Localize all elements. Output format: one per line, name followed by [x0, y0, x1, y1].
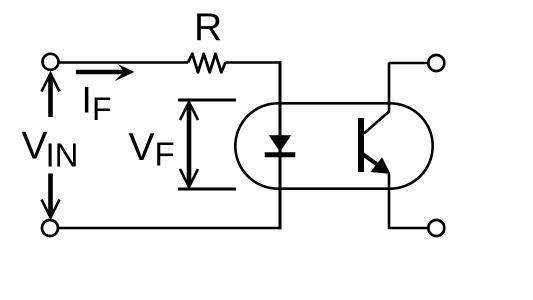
LED D1 cathode bar — [265, 152, 296, 157]
svg-text:F: F — [92, 91, 112, 127]
VF top measurement bar — [178, 99, 236, 102]
VF bottom measurement bar — [178, 188, 236, 191]
resistor R — [188, 54, 226, 73]
phototransistor Q1 base bar — [358, 118, 364, 172]
svg-text:F: F — [155, 136, 175, 173]
arrow VIN down (to bottom-left terminal) — [42, 174, 60, 218]
wire: emitter to bottom-right terminal — [389, 174, 429, 228]
arrow IF (current direction) — [76, 64, 135, 81]
svg-text:IN: IN — [46, 137, 79, 174]
wire: resistor to node (LED anode column) — [226, 61, 282, 64]
LED anode/cathode wire — [279, 61, 282, 229]
terminal top-right — [428, 55, 444, 71]
phototransistor Q1 collector — [364, 63, 389, 134]
svg-text:V: V — [22, 125, 48, 168]
VF double-headed arrow — [180, 102, 198, 187]
phototransistor Q1 emitter with arrow — [363, 154, 391, 174]
LED D1 triangle — [269, 135, 291, 152]
wire: top-left terminal to resistor — [59, 61, 189, 64]
arrow VIN up (at top-left terminal) — [42, 74, 60, 118]
terminal top-left — [43, 54, 59, 70]
svg-text:R: R — [194, 6, 222, 49]
terminal bottom-left — [42, 220, 58, 236]
optocoupler package U1 (stadium outline) — [235, 103, 432, 188]
svg-text:V: V — [129, 126, 155, 169]
terminal bottom-right — [428, 220, 444, 236]
wire: collector to top-right terminal — [389, 62, 429, 65]
wire: bottom-left terminal to LED cathode column — [58, 227, 281, 230]
svg-text:I: I — [82, 79, 92, 120]
